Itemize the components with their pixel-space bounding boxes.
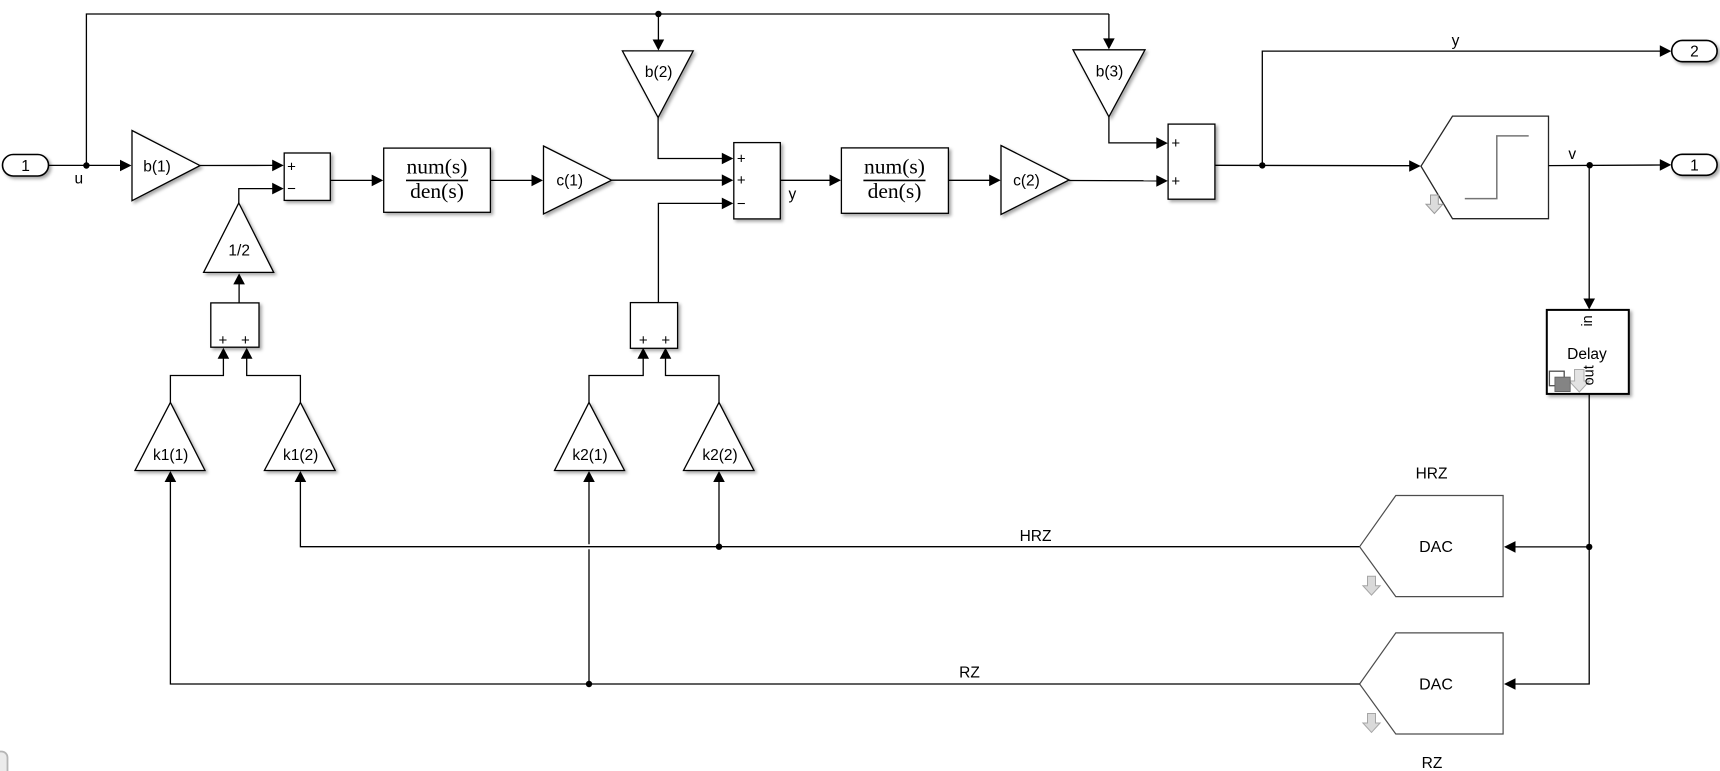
wire: RZ net from DAC2 to k1(1) and k2(1): [170, 482, 1359, 685]
svg-text:b(2): b(2): [645, 64, 673, 81]
svg-text:+: +: [737, 151, 746, 168]
wire: Delay out down to DAC branch: [1588, 394, 1590, 547]
wire: c(2) to sum S3 bottom plus input: [1069, 180, 1157, 182]
wire: S2 to transfer fcn TF2, node y: [780, 179, 830, 181]
transfer fcn TF2 num(s)/den(s): [841, 148, 948, 213]
wire: S4 up into gain 1/2: [238, 284, 240, 303]
wire: bus drop into b(3): [1108, 14, 1110, 39]
wire: bus drop into b(2): [657, 14, 659, 40]
wire: TF2 to gain c(2): [948, 179, 990, 181]
svg-text:−: −: [287, 181, 296, 198]
svg-text:RZ: RZ: [1422, 755, 1443, 771]
node: DAC feed junction: [1586, 544, 1592, 550]
DAC1 logging badge arrow: [1363, 576, 1380, 595]
svg-text:+: +: [241, 332, 250, 349]
wire: feedforward bus from u up and across to b(2)/b(3): [86, 14, 1109, 166]
wire: sum S5 up to sum S2 minus input: [658, 203, 723, 302]
svg-text:c(1): c(1): [556, 173, 583, 190]
svg-text:u: u: [74, 171, 83, 188]
wire: S3 output to relay input: [1215, 164, 1411, 166]
wire: TF1 to gain c(1): [490, 179, 532, 181]
wire: 1/2 to sum S1 minus input: [239, 189, 273, 203]
relay block (step): [1421, 116, 1549, 219]
svg-text:−: −: [737, 195, 746, 212]
svg-text:den(s): den(s): [868, 179, 922, 203]
svg-text:k2(2): k2(2): [702, 447, 737, 464]
wire: k2(1) up into sum S5 left input: [589, 358, 643, 402]
svg-text:v: v: [1568, 146, 1576, 163]
sum S4: [211, 303, 259, 347]
svg-text:HRZ: HRZ: [1416, 465, 1448, 482]
svg-text:2: 2: [1690, 44, 1699, 61]
svg-text:DAC: DAC: [1419, 677, 1453, 694]
relay step icon: [1465, 136, 1529, 199]
gain 1/2: [204, 203, 274, 272]
svg-text:+: +: [287, 158, 296, 175]
svg-text:Delay: Delay: [1567, 346, 1607, 363]
wire: S1 to transfer fcn TF1: [330, 179, 373, 181]
wire: relay output to port 1, net v: [1549, 164, 1662, 167]
sum S5: [630, 303, 677, 349]
wire: branch up to output port 2, net y: [1262, 51, 1661, 165]
svg-text:k1(1): k1(1): [153, 447, 188, 464]
canvas corner widget: [0, 752, 8, 771]
svg-text:k1(2): k1(2): [283, 447, 318, 464]
sum S1: [284, 153, 330, 200]
svg-text:+: +: [639, 332, 648, 349]
svg-text:HRZ: HRZ: [1020, 528, 1052, 545]
output port 2: [1672, 40, 1717, 61]
input port 1: [3, 155, 49, 177]
sum S3: [1168, 124, 1215, 199]
DAC2 logging badge arrow: [1363, 714, 1380, 733]
node: relay output branch junction v: [1587, 162, 1593, 168]
wire: In1 to gain b(1): [49, 164, 121, 166]
wire: k2(2) up into sum S5 right input: [666, 358, 720, 402]
DAC2 block (RZ): [1360, 633, 1504, 734]
wire: k1(2) up into sum S4 right input: [247, 358, 301, 402]
node: HRZ branch junction: [716, 544, 722, 550]
gain b(3): [1073, 50, 1145, 117]
svg-text:out: out: [1581, 365, 1597, 385]
svg-text:c(2): c(2): [1013, 173, 1040, 190]
svg-text:+: +: [737, 172, 746, 189]
svg-text:in: in: [1580, 315, 1596, 326]
wire: b(1) to sum S1 plus input: [200, 164, 273, 166]
node: S3 output branch junction: [1259, 162, 1265, 168]
output port 1: [1672, 154, 1717, 175]
delay variant badge icon: [1549, 371, 1564, 386]
svg-text:DAC: DAC: [1419, 539, 1453, 556]
node: input branch junction u: [83, 162, 89, 168]
svg-text:+: +: [1171, 135, 1180, 152]
delay logging badge arrow: [1569, 370, 1589, 393]
relay logging badge arrow: [1426, 195, 1443, 214]
svg-text:num(s): num(s): [407, 154, 468, 178]
svg-text:k2(1): k2(1): [572, 447, 607, 464]
DAC1 block (HRZ): [1360, 496, 1504, 597]
svg-text:b(1): b(1): [143, 158, 171, 175]
gain c(1): [544, 146, 612, 214]
svg-text:1: 1: [1690, 157, 1699, 174]
svg-text:+: +: [219, 332, 228, 349]
svg-text:1/2: 1/2: [228, 243, 250, 260]
wire: v down into Delay block: [1588, 165, 1590, 299]
svg-text:y: y: [1452, 33, 1460, 50]
gain k2(2): [684, 402, 755, 470]
node: bus junction over b(2): [655, 11, 661, 17]
wire: RZ riser k2(1) (crosses HRZ net): [588, 482, 590, 685]
svg-text:+: +: [1171, 173, 1180, 190]
gain c(2): [1001, 146, 1069, 215]
gain b(1): [132, 131, 200, 201]
svg-text:1: 1: [21, 158, 30, 175]
delay block: [1547, 310, 1629, 394]
gain k1(2): [264, 402, 335, 470]
wire: c(1) to sum S2 middle plus input: [612, 179, 723, 181]
wire: HRZ net from DAC1 to k1(2) and k2(2): [300, 482, 1359, 547]
wire: b(2) to sum S2 top plus input: [658, 118, 723, 159]
svg-text:b(3): b(3): [1096, 64, 1124, 81]
node: RZ branch junction: [586, 681, 592, 687]
svg-text:RZ: RZ: [959, 665, 980, 682]
gain k1(1): [135, 402, 205, 470]
gain k2(1): [555, 402, 625, 470]
svg-text:den(s): den(s): [410, 179, 464, 203]
svg-text:+: +: [661, 332, 670, 349]
sum S2: [734, 143, 781, 219]
svg-text:num(s): num(s): [864, 154, 925, 178]
wire: b(3) to sum S3 top plus input: [1109, 117, 1158, 143]
wire: junction left into DAC1: [1515, 546, 1589, 548]
wire: junction down and left into DAC2: [1515, 547, 1589, 684]
wire: HRZ branch up to k2(2): [718, 482, 720, 547]
wire: k1(1) up into sum S4 left input: [170, 358, 223, 402]
svg-text:y: y: [789, 186, 797, 203]
transfer fcn TF1 num(s)/den(s): [384, 148, 491, 212]
gain b(2): [622, 51, 693, 118]
